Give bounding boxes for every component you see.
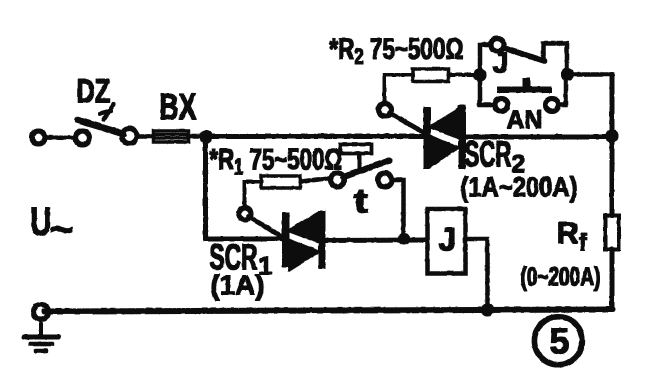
switch DZ actuator mark <box>100 104 114 119</box>
node B <box>561 68 573 80</box>
wire t down <box>392 180 404 239</box>
svg-text:SCR: SCR <box>464 133 511 174</box>
svg-text:*R2 75~500Ω: *R2 75~500Ω <box>329 33 463 69</box>
svg-text:J: J <box>492 47 508 79</box>
wire AN right up <box>558 74 566 105</box>
wire node A up <box>480 45 491 75</box>
SCR2 thyristor <box>389 105 465 169</box>
contact t right <box>378 173 392 187</box>
relay contact J fixed hook <box>543 43 567 74</box>
node main right <box>606 130 618 142</box>
svg-text:*R1 75~500Ω: *R1 75~500Ω <box>209 143 342 179</box>
wire <box>137 134 154 138</box>
SCR1 gate terminal <box>239 208 251 220</box>
wire <box>188 134 207 138</box>
resistor R2 <box>413 69 449 82</box>
wire right vertical bottom <box>610 249 614 309</box>
svg-text:(0~200A): (0~200A) <box>520 261 600 291</box>
fuse BX <box>153 131 188 142</box>
wire gate to R1 <box>244 182 261 208</box>
wire gate to R2 <box>384 75 413 104</box>
relay contact J left <box>491 38 504 51</box>
svg-text:BX: BX <box>159 86 196 127</box>
pushbutton AN left contact <box>495 98 508 111</box>
wire coil to bottom <box>465 239 487 310</box>
SCR1 thyristor <box>248 211 325 271</box>
resistor R1 <box>261 176 300 188</box>
terminal input left <box>32 131 45 144</box>
wire node B to right <box>567 72 612 76</box>
contact t stem <box>358 153 361 170</box>
pushbutton AN bar <box>497 87 551 93</box>
relay contact J blade <box>504 48 545 61</box>
svg-text:U: U <box>30 200 51 244</box>
resistor Rf <box>605 215 619 249</box>
contact t blade <box>343 160 389 177</box>
ground <box>24 319 58 351</box>
node main junction <box>200 131 212 143</box>
relay coil J <box>427 209 465 274</box>
svg-text:AN: AN <box>506 104 542 134</box>
pushbutton AN right contact <box>545 98 558 111</box>
pushbutton AN stem <box>523 78 530 87</box>
svg-text:t: t <box>353 182 368 220</box>
node A <box>474 69 486 81</box>
svg-text:(1A): (1A) <box>210 269 264 300</box>
switch DZ fixed contact <box>122 128 137 143</box>
svg-text:~: ~ <box>49 205 74 252</box>
wire SCR1 anode line <box>205 237 285 241</box>
svg-text:DZ: DZ <box>76 72 110 109</box>
switch DZ pivot contact <box>75 131 89 145</box>
wire <box>45 135 76 139</box>
node SCR1 cathode junction <box>398 233 409 244</box>
wire main horizontal right of SCR2 <box>461 135 612 139</box>
wire R2 to node A <box>448 73 480 76</box>
contact t left <box>330 173 344 187</box>
wire left vertical branch <box>203 136 207 239</box>
node bottom junction <box>481 304 493 316</box>
svg-text:J: J <box>438 221 456 257</box>
terminal ground <box>33 304 48 319</box>
wire right vertical middle <box>610 136 614 215</box>
wire SCR1 cathode line <box>322 238 427 243</box>
contact t bar <box>340 144 371 153</box>
svg-text:(1A~200A): (1A~200A) <box>460 171 577 202</box>
wire node A down <box>480 75 495 105</box>
wire R1 to t <box>300 178 331 182</box>
switch DZ blade <box>77 120 123 134</box>
wire bottom horizontal <box>44 309 612 311</box>
wire right vertical top <box>610 74 614 136</box>
svg-text:5: 5 <box>549 320 569 361</box>
figure number 5 <box>534 316 582 364</box>
SCR2 gate terminal <box>378 103 391 116</box>
wire main horizontal left of SCR2 <box>205 134 426 138</box>
